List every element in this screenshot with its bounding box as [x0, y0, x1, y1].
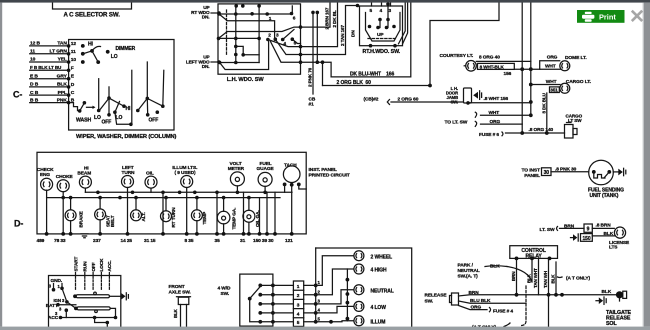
ignition contact bar 1: [73, 292, 109, 298]
wire 2 PNK 76: [311, 11, 315, 94]
svg-text:.8 BRN: .8 BRN: [596, 223, 612, 229]
svg-text:237: 237: [93, 238, 101, 244]
svg-text:BRN: BRN: [511, 272, 516, 281]
svg-text:4 LOW: 4 LOW: [371, 305, 387, 311]
RH switch feed stubs: [372, 3, 391, 6]
panel vertical wires: [47, 184, 307, 234]
lamp 4HIGH: [354, 264, 387, 274]
svg-text:5: 5: [297, 320, 300, 326]
dashed AT wire: [521, 286, 527, 326]
svg-text:LO: LO: [94, 115, 101, 121]
svg-text:RT.H.WDO. SW.: RT.H.WDO. SW.: [363, 49, 401, 55]
wire .8 PNK 30: [551, 171, 589, 173]
node right edge 27: [299, 25, 303, 29]
svg-text:9: 9: [587, 227, 590, 233]
wire .8 ORG 140: [506, 131, 565, 135]
printer icon: [582, 12, 594, 22]
svg-text:LT. SW: LT. SW: [540, 227, 556, 233]
svg-text:RUN: RUN: [83, 261, 88, 272]
courtesy lamp: [464, 61, 476, 72]
lamp ALT: [131, 210, 147, 222]
relay terminals: [515, 257, 552, 261]
svg-text:2 WHEEL: 2 WHEEL: [371, 254, 393, 260]
svg-text:A C SELECTOR SW.: A C SELECTOR SW.: [64, 11, 121, 18]
wire DK BLU-WHT 166: [331, 3, 411, 77]
svg-text:COURTESY LT.: COURTESY LT.: [440, 53, 474, 59]
wire C PPL: [30, 90, 75, 97]
4WD terminal strip: [273, 281, 304, 326]
svg-text:START: START: [73, 256, 78, 271]
svg-text:14 25: 14 25: [121, 238, 133, 244]
label UP LEFT WDO DN: [186, 55, 210, 69]
svg-text:BRN: BRN: [469, 290, 480, 296]
svg-text:LO: LO: [111, 54, 118, 60]
LH switch terminal 6: [290, 12, 296, 22]
indicator bus: [304, 248, 318, 324]
svg-text:ALT.: ALT.: [141, 212, 146, 221]
label LH DOOR JAMB SW: [446, 86, 458, 105]
svg-text:LOCK: LOCK: [99, 258, 104, 272]
dashed guide: [226, 10, 228, 56]
svg-text:6: 6: [293, 16, 296, 22]
svg-text:TURN: TURN: [122, 170, 136, 176]
lamp CHECK ENG: [37, 167, 54, 190]
svg-text:.8 PNK 30: .8 PNK 30: [555, 166, 577, 172]
lead marks: [475, 112, 476, 126]
label UP RT WDO DN: [191, 5, 210, 19]
svg-text:BRN: BRN: [564, 223, 575, 229]
svg-text:(CB)#2: (CB)#2: [364, 97, 379, 103]
lamp HI BEAM: [77, 165, 91, 188]
svg-text:BEAM: BEAM: [77, 171, 91, 177]
cargo lamp: [560, 83, 570, 93]
svg-text:SW.: SW.: [221, 291, 230, 297]
label LICENSE LTS: [609, 240, 630, 251]
svg-text:8 WHT-BLK: 8 WHT-BLK: [480, 64, 505, 69]
svg-text:DN.: DN.: [202, 15, 210, 20]
connector 8 WHT-BLK: [478, 63, 515, 69]
svg-text:150: 150: [583, 236, 591, 242]
wire riser 407: [403, 3, 408, 44]
svg-text:B B: B B: [30, 97, 39, 103]
svg-text:RT TURN: RT TURN: [171, 207, 176, 228]
svg-text:FUSE # 6: FUSE # 6: [479, 132, 499, 138]
svg-text:HI: HI: [84, 165, 89, 171]
wire cargo WHT: [531, 84, 560, 86]
svg-text:NEUTRAL: NEUTRAL: [371, 288, 394, 294]
svg-text:DOME LT.: DOME LT.: [565, 55, 587, 61]
svg-text:PARK /: PARK /: [458, 263, 474, 269]
svg-text:30: 30: [544, 170, 550, 176]
svg-text:156: 156: [504, 71, 512, 77]
ground brake: [81, 234, 88, 238]
label TO INST PANEL: [521, 168, 540, 179]
svg-text:WASH: WASH: [76, 118, 92, 124]
label TAILGATE RELEASE SOL: [606, 310, 631, 327]
svg-text:ILLUM: ILLUM: [371, 319, 386, 325]
tailgate ground: [596, 297, 606, 304]
node right edge 62: [299, 60, 303, 64]
wire TAN WHT: [538, 258, 540, 294]
svg-text:IGN: IGN: [54, 298, 62, 303]
svg-text:ACC: ACC: [48, 315, 59, 321]
fuel unit ground: [613, 168, 626, 175]
svg-text:78 33: 78 33: [54, 238, 66, 244]
svg-text:351: 351: [550, 88, 558, 93]
wire E GRY: [30, 73, 75, 80]
lamp 4LOW: [354, 301, 386, 311]
svg-text:PPL: PPL: [58, 90, 67, 96]
svg-text:DN.: DN.: [202, 64, 210, 69]
svg-text:3: 3: [297, 302, 300, 308]
label GND: [49, 278, 62, 289]
release switch: [450, 293, 459, 305]
power riser B: [529, 3, 533, 118]
svg-text:NEUTRAL: NEUTRAL: [458, 268, 480, 274]
svg-text:10: 10: [71, 57, 77, 63]
label PARK NEUTRAL SW: [458, 263, 480, 280]
connector 30: [542, 168, 552, 176]
svg-text:D-: D-: [14, 219, 23, 229]
wire WHT to lt sw: [481, 114, 531, 116]
wiper washer dimmer switch box: [69, 40, 174, 131]
LH switch terminal 2: [266, 32, 271, 41]
wire .8 BRN: [592, 227, 614, 229]
wire 11 LT GRN: [30, 49, 76, 56]
svg-text:ENG: ENG: [40, 172, 50, 178]
svg-text:11: 11: [30, 49, 35, 55]
door jamb switch: [464, 88, 482, 103]
label CARGO LT SW: [566, 113, 583, 123]
common wire: [346, 269, 350, 321]
svg-text:ACC.: ACC.: [107, 260, 112, 271]
svg-text:F: F: [71, 65, 74, 71]
left border: [0, 3, 2, 327]
svg-text:GUAGE: GUAGE: [257, 166, 275, 172]
wire dome WHT: [531, 68, 561, 70]
indicator cluster box: [316, 248, 412, 327]
wire to ORG BLK riser: [321, 60, 325, 85]
gauge VOLT METER: [228, 161, 245, 186]
svg-text:YEL: YEL: [58, 57, 67, 63]
control relay box: [510, 246, 558, 260]
4WD switch box: [240, 274, 273, 326]
wire 12 TAN: [30, 41, 77, 48]
svg-text:PRINTED CIRCUIT: PRINTED CIRCUIT: [309, 173, 350, 179]
A/C selector switch box: [53, 0, 132, 9]
lamp TEMP: [191, 210, 207, 225]
lamp RT TURN: [161, 207, 177, 228]
svg-text:2 ORG BLK 60: 2 ORG BLK 60: [337, 80, 372, 86]
svg-text:LO: LO: [116, 115, 123, 121]
svg-text:4 W/D: 4 W/D: [218, 286, 231, 292]
svg-text:WIPER, WASHER, DIMMER (COLUMN): WIPER, WASHER, DIMMER (COLUMN): [76, 134, 177, 140]
front axle switch: [177, 297, 191, 327]
wire B PNK: [30, 97, 75, 104]
bottom border: [0, 327, 650, 330]
svg-text:CHOKE: CHOKE: [56, 174, 74, 180]
svg-text:2: 2: [268, 32, 271, 38]
svg-text:BLK: BLK: [173, 308, 178, 318]
svg-text:DN: DN: [351, 30, 357, 37]
tailgate release solenoid: [616, 291, 627, 301]
dimmer switch contacts: [81, 44, 110, 64]
svg-text:( 9 USED): ( 9 USED): [175, 170, 196, 176]
svg-text:(A T ONLY): (A T ONLY): [566, 276, 590, 282]
svg-text:2 ORG 60: 2 ORG 60: [398, 96, 419, 102]
wire to LEFT WDO: [211, 60, 221, 64]
label FUSE #4: [490, 308, 514, 315]
svg-text:BLK: BLK: [57, 82, 67, 88]
wiper switch contacts: [97, 70, 133, 126]
gauge TEMP GA: [217, 208, 236, 230]
lamp LEFT TURN: [122, 165, 136, 188]
svg-text:SW.: SW.: [425, 299, 434, 305]
wire ORG to lt sw: [481, 123, 523, 125]
svg-text:GRY: GRY: [57, 73, 68, 79]
svg-text:PANEL: PANEL: [524, 173, 540, 179]
svg-text:ORG: ORG: [547, 55, 558, 61]
wire to 4LOW: [316, 306, 354, 313]
svg-text:E B: E B: [30, 73, 38, 79]
svg-text:BLK: BLK: [551, 274, 556, 284]
svg-text:12 B: 12 B: [30, 41, 40, 47]
power riser A: [520, 3, 524, 135]
top dark bar: [0, 0, 650, 3]
washer switch: [71, 101, 96, 113]
fuel sending unit: [589, 160, 614, 185]
svg-text:BLU BLK: BLU BLK: [470, 298, 491, 304]
svg-text:8 DK BLU: 8 DK BLU: [541, 92, 546, 113]
svg-text:HI: HI: [126, 106, 132, 112]
instrument panel box: [37, 152, 306, 234]
svg-text:12: 12: [71, 41, 77, 47]
svg-text:TO INST: TO INST: [521, 168, 540, 174]
wire BLU BLK: [459, 301, 527, 303]
svg-text:UP: UP: [377, 32, 384, 38]
svg-text:4 HIGH: 4 HIGH: [371, 268, 388, 274]
svg-text:SW.(A. T): SW.(A. T): [458, 274, 479, 280]
svg-text:DIMMER: DIMMER: [116, 46, 136, 52]
close X: [632, 11, 642, 21]
svg-text:3: 3: [276, 33, 279, 39]
wire F BLK LT BLU: [30, 65, 74, 72]
lamp CHOKE: [56, 174, 74, 192]
svg-text:BATT: BATT: [46, 303, 58, 309]
svg-text:C-: C-: [13, 90, 22, 100]
lamp BRAKE: [65, 210, 83, 228]
svg-text:Print: Print: [599, 13, 616, 22]
dome lamp: [560, 61, 570, 71]
svg-text:FRONT: FRONT: [169, 284, 185, 290]
svg-text:CARGO LT.: CARGO LT.: [566, 79, 592, 85]
svg-text:F B BLK LT BU: F B BLK LT BU: [30, 65, 62, 70]
svg-text:8 35: 8 35: [185, 238, 194, 244]
svg-text:31: 31: [240, 238, 246, 244]
connector 9: [584, 224, 592, 233]
svg-text:ILLUM LTS.: ILLUM LTS.: [172, 165, 197, 171]
connector 351: [550, 87, 560, 93]
ignition contact bar 2: [74, 307, 110, 313]
wire BRN release to tailgate: [459, 293, 617, 297]
wire 8 ORG 40: [476, 60, 531, 62]
node right edge 54: [299, 53, 303, 57]
bus pin numbers: [318, 280, 321, 321]
wire 2 DK BLU: [301, 3, 338, 47]
svg-text:35: 35: [215, 238, 221, 244]
LH switch terminal 1: [265, 12, 271, 22]
svg-text:C B: C B: [30, 90, 39, 96]
wire dome ORG: [540, 61, 560, 69]
label ACC: [48, 311, 59, 321]
gauge OIL GA: [243, 210, 260, 227]
svg-text:BLK: BLK: [490, 264, 500, 270]
svg-text:TO LT. SW: TO LT. SW: [445, 120, 468, 126]
wire riser to top: [430, 3, 499, 86]
wire 10 YEL: [30, 57, 77, 64]
svg-text:D: D: [71, 82, 75, 88]
LH switch interior wiring: [217, 4, 301, 69]
bus wire upper: [85, 191, 292, 195]
wire D BLK: [30, 82, 75, 89]
svg-text:GND.: GND.: [51, 278, 63, 284]
lamp ILLUM LTS: [172, 165, 197, 188]
svg-text:OIL: OIL: [146, 170, 154, 176]
wire to 4HIGH: [316, 269, 354, 295]
svg-text:TAN WHT: TAN WHT: [533, 268, 538, 288]
RH switch bottom terminals: [369, 44, 397, 48]
svg-text:5: 5: [370, 8, 373, 14]
svg-text:10: 10: [30, 57, 36, 63]
svg-text:31 15: 31 15: [144, 238, 156, 244]
svg-text:INST. PANEL: INST. PANEL: [309, 167, 338, 173]
svg-text:ORG: ORG: [471, 305, 482, 311]
label FUSE #6: [479, 132, 503, 138]
svg-text:ORG: ORG: [490, 119, 501, 125]
RH window switch box: [360, 6, 403, 46]
svg-text:VOLT: VOLT: [230, 161, 242, 167]
svg-text:D B: D B: [30, 82, 39, 88]
ignition internal wires: [52, 284, 118, 327]
lamp OIL: [145, 170, 157, 188]
wire to ILLUM: [316, 320, 354, 324]
RH switch contacts: [368, 2, 396, 29]
svg-text:PNK: PNK: [57, 97, 68, 103]
label 4WD SW: [218, 286, 231, 298]
svg-text:TAN: TAN: [57, 41, 67, 47]
label IGN: [54, 298, 66, 303]
svg-text:RELAY: RELAY: [525, 254, 542, 260]
gauge TACH: [283, 163, 301, 187]
LH switch terminal 3: [274, 33, 280, 41]
wire 8 DK BLU riser: [546, 93, 548, 133]
license lamp: [614, 227, 625, 238]
svg-text:AXLE SW.: AXLE SW.: [169, 289, 191, 295]
wire BLK license: [592, 235, 615, 237]
wire riser 405: [399, 3, 406, 44]
lamp SEAT BELT: [95, 209, 115, 227]
label A T ONLY: [558, 276, 591, 282]
wire to NEUTRAL: [316, 290, 354, 304]
svg-text:2 DK BL: 2 DK BL: [332, 10, 337, 27]
svg-text:1: 1: [297, 284, 300, 290]
pin numbers: [37, 238, 294, 244]
LH switch terminal 4: [281, 38, 286, 47]
svg-text:OFF: OFF: [102, 120, 112, 126]
wire 8 WHT 156: [466, 101, 531, 105]
svg-text:BLK: BLK: [527, 273, 532, 283]
svg-text:TACH: TACH: [284, 163, 297, 169]
svg-text:150 39 30: 150 39 30: [253, 238, 274, 244]
wire BLK relay: [507, 258, 532, 282]
wire BLK right: [554, 262, 558, 297]
cargo lamp switch: [565, 123, 578, 139]
svg-text:FUEL: FUEL: [260, 161, 272, 167]
svg-text:3: 3: [389, 8, 392, 14]
park neutral leads: [485, 265, 507, 268]
license ground: [571, 234, 579, 241]
svg-text:OFF: OFF: [91, 262, 96, 271]
svg-text:2: 2: [297, 293, 300, 299]
svg-text:121: 121: [285, 238, 293, 244]
wire riser 317: [316, 11, 320, 64]
RH switch pins 5 4 3: [370, 8, 392, 14]
svg-text:SW.: SW.: [451, 99, 458, 104]
svg-text:RELEASE: RELEASE: [425, 293, 448, 299]
lamp 2WHEEL: [354, 251, 392, 261]
wire to DK BLU-WHT: [301, 62, 332, 77]
svg-text:C: C: [71, 90, 75, 96]
svg-text:LTS: LTS: [609, 245, 618, 251]
svg-text:2 BRN 167: 2 BRN 167: [325, 7, 330, 29]
print button: [577, 10, 625, 23]
svg-text:SOL: SOL: [606, 321, 617, 327]
svg-text:DK BLU-WHT 166: DK BLU-WHT 166: [350, 72, 394, 78]
lamp ILLUM: [354, 316, 385, 326]
dimmer column contacts: [136, 62, 165, 117]
svg-text:.8 WHT 156: .8 WHT 156: [484, 96, 509, 102]
svg-text:TEMP: TEMP: [202, 212, 207, 225]
svg-text:4: 4: [297, 312, 300, 318]
svg-text:FUSE # 4: FUSE # 4: [493, 309, 513, 315]
wire 8 WHT-BLK: [514, 67, 532, 71]
node right edge 46: [299, 45, 303, 49]
ignition switch box: [49, 276, 121, 329]
gauge FUEL GUAGE: [257, 161, 275, 186]
ignition ground: [110, 293, 129, 300]
lamp NEUTRAL: [354, 285, 394, 295]
right border: [644, 3, 650, 327]
wire 2 ORG 60: [387, 100, 463, 105]
RH switch contact plate: [366, 13, 401, 42]
svg-text:2 PNK 76: 2 PNK 76: [308, 67, 313, 87]
panel bottom terminals: [45, 232, 294, 236]
svg-text:8 ORG 40: 8 ORG 40: [479, 55, 500, 61]
svg-text:L.H. WDO. SW: L.H. WDO. SW: [227, 77, 265, 83]
wire 2 TAN 167: [301, 4, 360, 55]
svg-text:UNIT (TANK): UNIT (TANK): [590, 193, 619, 199]
LH switch terminal 5: [291, 37, 297, 46]
wire 2 ORG BLK 60: [323, 84, 432, 88]
wire TAN WH: [547, 258, 551, 326]
wire 2 BRN 167: [301, 3, 331, 28]
svg-text:.8 ORG 140: .8 ORG 140: [529, 127, 554, 133]
svg-text:LT GRN: LT GRN: [50, 49, 68, 55]
wire to 2WHEEL: [316, 256, 354, 286]
wire BRN relay: [515, 258, 519, 296]
svg-text:HI: HI: [88, 41, 94, 47]
label CB #1: [309, 97, 316, 108]
